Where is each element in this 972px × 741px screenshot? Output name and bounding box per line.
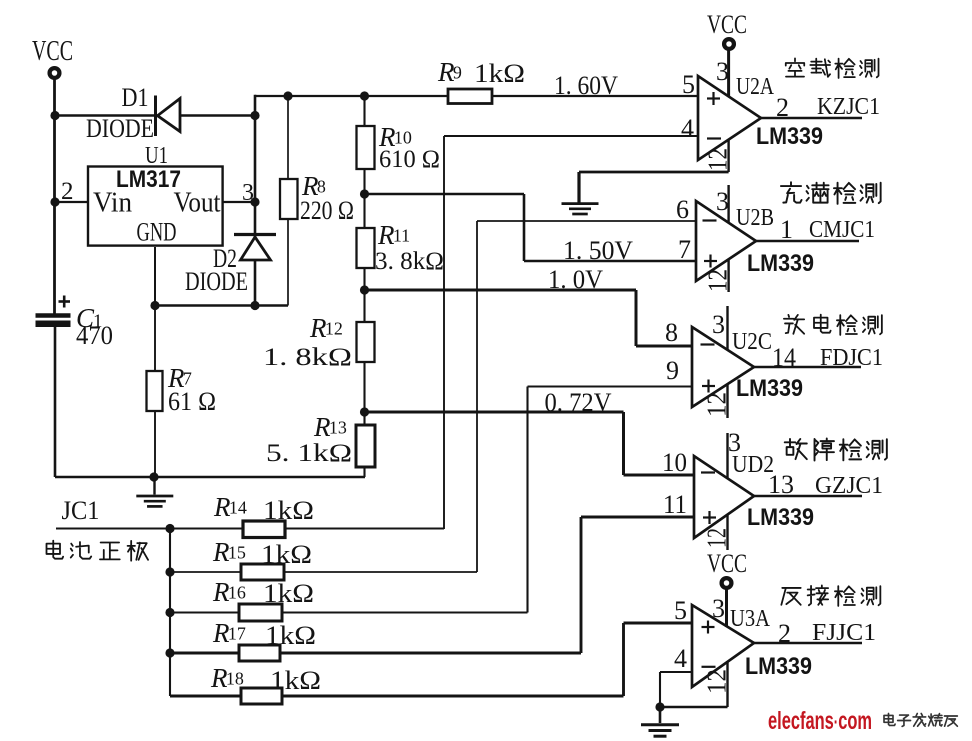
label fault detection (guzhang jiance): [785, 438, 887, 460]
wire pin9 net (R16 to U2C pin9): [528, 387, 693, 613]
svg-text:12: 12: [702, 669, 732, 694]
svg-text:18: 18: [226, 669, 244, 689]
pin 5 label U3A: [674, 596, 687, 625]
wire R16 row y=612.5: [170, 611, 528, 613]
node junction VCC/D1 rail: [50, 111, 59, 120]
minus input marker U2C: [701, 343, 715, 345]
svg-text:5: 5: [674, 596, 687, 625]
svg-text:U2A: U2A: [736, 74, 775, 100]
svg-text:1kΩ: 1kΩ: [474, 58, 525, 88]
pin 13 label UD2: [768, 470, 794, 499]
minus input marker U2A: [707, 137, 721, 139]
svg-text:61 Ω: 61 Ω: [168, 387, 216, 416]
svg-text:1kΩ: 1kΩ: [261, 540, 312, 569]
svg-text:4: 4: [681, 114, 694, 143]
svg-text:2: 2: [61, 178, 74, 205]
resistor R13 5.1kohm: [266, 412, 375, 477]
svg-text:DIODE: DIODE: [86, 114, 154, 143]
wire R17 row y=653: [170, 652, 581, 655]
pin 12 lead U2C: [702, 384, 732, 418]
pin 12 lead U2B: [703, 260, 733, 292]
resistor R17 1kohm: [212, 618, 316, 661]
wire U3A pin5 net (R18 to U3A pin5): [624, 623, 693, 696]
net label 1.60V: [554, 71, 618, 100]
wire R15 row y=572: [170, 571, 477, 573]
pin 6 label U2B: [676, 195, 689, 224]
svg-text:GND: GND: [137, 218, 177, 247]
resistor R16 1kohm: [212, 577, 314, 621]
svg-text:LM339: LM339: [756, 123, 823, 150]
ground (U3A): [641, 707, 679, 736]
op-amp U1 LM317 regulator box: [88, 143, 223, 247]
wire pin6 net (R15 to U2B pin6): [477, 221, 696, 572]
svg-text:11: 11: [393, 226, 410, 246]
net label FJJC1: [812, 620, 876, 646]
svg-text:KZJC1: KZJC1: [817, 94, 880, 120]
svg-text:elecfans·com: elecfans·com: [768, 707, 872, 735]
svg-text:10: 10: [662, 448, 687, 477]
resistor R14 1kohm: [213, 492, 314, 538]
pin 2 label U2A: [776, 93, 789, 122]
node junction VCC/Vin rail: [50, 197, 59, 206]
svg-text:9: 9: [666, 356, 679, 385]
svg-text:1kΩ: 1kΩ: [263, 496, 314, 525]
wire GND rail y=305.5: [155, 304, 288, 307]
op-amp U2B comparator LM339: [696, 201, 756, 281]
svg-text:VCC: VCC: [32, 36, 73, 67]
svg-text:10: 10: [394, 128, 412, 148]
power VCC (U3A pin 3): [707, 549, 747, 627]
node junction bus/R15: [165, 567, 174, 576]
svg-text:1: 1: [780, 215, 793, 244]
wire C1 bottom to ground rail: [54, 327, 57, 477]
svg-text:D1: D1: [122, 83, 149, 112]
power VCC (U2A pin 3): [707, 10, 747, 97]
net label 1.50V: [563, 236, 633, 265]
plus input marker U3A: [702, 621, 715, 634]
node junction R10/R11 (1.50V tap): [360, 189, 369, 198]
svg-text:U2C: U2C: [732, 329, 772, 355]
svg-text:DIODE: DIODE: [185, 267, 248, 296]
resistor R11 3.8kohm: [357, 194, 445, 290]
svg-text:JC1: JC1: [62, 496, 100, 525]
minus input marker U2B: [703, 219, 717, 221]
svg-text:LM339: LM339: [736, 375, 803, 402]
resistor R12 1.8kohm: [263, 290, 375, 412]
svg-text:14: 14: [772, 343, 796, 372]
ground (U2A): [562, 204, 599, 214]
wire bottom ground rail y=477: [55, 476, 365, 479]
pin 14 label U2C: [772, 343, 796, 372]
wire 1.0V net to pin8: [365, 290, 693, 346]
svg-text:1kΩ: 1kΩ: [265, 621, 316, 650]
op-amp U3A comparator LM339: [692, 605, 754, 687]
svg-text:0. 72V: 0. 72V: [545, 388, 612, 417]
svg-text:4: 4: [674, 644, 687, 673]
wire U3A pin4 net: [660, 672, 692, 707]
svg-text:12: 12: [702, 528, 732, 548]
pin 3 label U3A: [712, 594, 725, 623]
svg-text:7: 7: [678, 235, 691, 264]
designator U2C: [732, 329, 772, 355]
pin 10 label UD2: [662, 448, 687, 477]
wire D1 anode rail y=115.5: [55, 114, 255, 117]
net label GZJC1: [815, 473, 883, 499]
minus input marker UD2: [701, 471, 715, 473]
svg-text:13: 13: [768, 470, 794, 499]
node junction R8 top: [283, 91, 292, 100]
svg-text:GZJC1: GZJC1: [815, 473, 883, 499]
minus input marker U3A: [702, 666, 716, 668]
op-amp U2C comparator LM339: [692, 327, 754, 407]
pin 4 label U2A: [681, 114, 694, 143]
svg-text:3. 8kΩ: 3. 8kΩ: [375, 248, 444, 275]
svg-text:470: 470: [76, 321, 113, 350]
svg-text:FJJC1: FJJC1: [812, 620, 876, 646]
net label KZJC1: [817, 94, 880, 120]
capacitor C1 470: [36, 296, 114, 351]
watermark dianzi fashaoyou: [884, 713, 957, 726]
label reverse-connection detection (fanjie jiance): [781, 585, 880, 605]
svg-text:7: 7: [183, 369, 192, 389]
node junction R11/R12 (1.0V tap): [360, 285, 369, 294]
svg-text:2: 2: [778, 619, 791, 648]
net label battery-positive (dianchi zhengji): [47, 541, 149, 561]
svg-text:13: 13: [329, 418, 347, 438]
pin 12 lead U2A: [703, 140, 733, 172]
op-amp U2A comparator LM339: [698, 76, 761, 160]
svg-text:Vin: Vin: [93, 188, 132, 219]
wire R18 row y=696: [170, 695, 624, 698]
svg-text:15: 15: [228, 543, 246, 563]
wire output FJJC1: [754, 642, 862, 644]
wire pin3 Vout to node: [223, 201, 255, 203]
svg-text:12: 12: [703, 148, 733, 171]
svg-text:1. 50V: 1. 50V: [563, 236, 633, 265]
wire pin11 net (R17 to UD2 pin11): [581, 517, 694, 653]
svg-text:1. 0V: 1. 0V: [548, 265, 603, 294]
power VCC (main, top-left): [32, 36, 73, 78]
wire output FDJC1: [754, 366, 861, 368]
label no-load detection (kongzai jiance): [786, 58, 879, 78]
diode D2: [185, 235, 276, 297]
node junction D2 anode: [250, 301, 259, 310]
node junction Vout: [250, 197, 259, 206]
label discharge detection (fangdian jiance): [784, 315, 882, 335]
svg-text:17: 17: [228, 624, 246, 644]
node junction R10 top: [360, 91, 369, 100]
wire U3A pin12 to ground: [660, 706, 728, 708]
wire output CMJC1: [756, 240, 859, 242]
node JC1 battery positive input: [62, 496, 100, 525]
pin 3 lead U2B: [716, 185, 729, 223]
node junction U3A pin4/pin12 ground: [655, 702, 664, 711]
svg-text:5: 5: [682, 70, 695, 99]
plus input marker UD2: [703, 511, 716, 524]
node junction bus/R16: [165, 608, 174, 617]
wire JC1 row y=529: [56, 528, 444, 530]
svg-text:1kΩ: 1kΩ: [263, 579, 314, 608]
part label LM339 (UD2): [747, 504, 814, 531]
svg-text:6: 6: [676, 195, 689, 224]
pin 3 lead U2C: [712, 306, 728, 350]
svg-text:9: 9: [453, 63, 462, 83]
svg-text:Vout: Vout: [174, 188, 221, 219]
op-amp UD2 comparator LM339: [694, 456, 754, 538]
node junction R7 / ground: [149, 472, 158, 481]
net label 1.0V: [548, 265, 603, 294]
svg-text:1kΩ: 1kΩ: [270, 666, 321, 695]
svg-text:220 Ω: 220 Ω: [300, 196, 354, 225]
svg-text:VCC: VCC: [707, 10, 747, 39]
part label LM339 (U2A): [756, 123, 823, 150]
pin 3 lead UD2: [728, 428, 742, 479]
svg-text:LM339: LM339: [747, 504, 814, 531]
resistor R9 1kohm: [437, 57, 525, 104]
svg-text:8: 8: [665, 318, 678, 347]
svg-text:LM339: LM339: [747, 250, 814, 277]
resistor R15 1kohm: [212, 537, 312, 580]
pin 4 label U3A: [674, 644, 687, 673]
wire vertical x=255 (D1 cathode to GND rail, through D2): [254, 95, 257, 306]
pin 5 label U2A: [682, 70, 695, 99]
pin 3 label U2A: [716, 57, 729, 86]
svg-text:CMJC1: CMJC1: [809, 217, 875, 243]
svg-text:LM339: LM339: [745, 653, 812, 680]
svg-text:1. 8kΩ: 1. 8kΩ: [263, 344, 352, 371]
designator UD2: [732, 452, 774, 478]
part label LM339 (U2B): [747, 250, 814, 277]
plus input marker U2C: [702, 380, 715, 393]
diode D1: [86, 83, 180, 143]
svg-text:5. 1kΩ: 5. 1kΩ: [266, 440, 352, 467]
svg-text:3: 3: [712, 594, 725, 623]
wire top rail y=96 (to R9 and pin5): [255, 95, 698, 97]
watermark elecfans.com logo: [768, 707, 872, 735]
resistor R7 61ohm: [147, 306, 217, 478]
pin 2 label U1: [61, 178, 74, 205]
svg-text:14: 14: [229, 498, 247, 518]
plus input marker U2B: [704, 255, 717, 268]
wire output KZJC1: [761, 117, 862, 119]
svg-text:3: 3: [716, 57, 729, 86]
net label CMJC1: [809, 217, 875, 243]
pin 8 label U2C: [665, 318, 678, 347]
node junction bus/R17: [165, 648, 174, 657]
svg-text:U2B: U2B: [736, 205, 774, 231]
node junction R12/R13 (0.72V tap): [360, 407, 369, 416]
wire pin2 Vin rail: [55, 201, 88, 203]
svg-text:16: 16: [228, 583, 246, 603]
pin 7 label U2B: [678, 235, 691, 264]
pin 2 label U3A: [778, 619, 791, 648]
pin 1 label U2B: [780, 215, 793, 244]
svg-text:12: 12: [702, 392, 732, 417]
pin 12 lead U3A: [702, 661, 732, 707]
designator U2A: [736, 74, 775, 100]
wire VCC vertical rail x=55: [53, 79, 56, 315]
pin 12 lead UD2: [702, 514, 732, 550]
svg-text:12: 12: [325, 319, 343, 339]
svg-text:3: 3: [712, 310, 725, 339]
designator U2B: [736, 205, 774, 231]
part label LM339 (U2C): [736, 375, 803, 402]
svg-text:2: 2: [776, 93, 789, 122]
svg-text:3: 3: [716, 187, 729, 216]
label full-charge detection (chongman jiance): [781, 182, 881, 204]
svg-text:VCC: VCC: [707, 549, 747, 578]
wire U2A pin12 to ground: [579, 172, 729, 204]
svg-text:610 Ω: 610 Ω: [379, 146, 440, 173]
wire U1 GND pin down: [154, 247, 156, 306]
net label FDJC1: [820, 345, 883, 371]
pin 3 label U1: [242, 180, 254, 206]
wire 0.72V net to pin10: [365, 412, 695, 475]
resistor R18 1kohm: [210, 663, 321, 704]
plus input marker U2A: [707, 92, 720, 105]
resistor R8 220ohm: [280, 96, 354, 306]
svg-text:12: 12: [703, 269, 733, 292]
resistor R10 610ohm: [357, 96, 441, 194]
svg-text:1. 60V: 1. 60V: [554, 71, 618, 100]
node junction bus/R14: [165, 524, 174, 533]
node junction D1 cathode / R9 branch: [250, 111, 259, 120]
pin 11 label UD2: [663, 490, 687, 519]
wire JC1 bus vertical x=170: [169, 529, 171, 697]
node junction GND pin / R7: [150, 301, 159, 310]
wire 1.50V net to pin7: [365, 194, 697, 261]
svg-text:11: 11: [663, 490, 687, 519]
svg-text:FDJC1: FDJC1: [820, 345, 883, 371]
wire pin4 net (R14 to U2A pin4): [444, 136, 698, 529]
svg-text:8: 8: [317, 177, 326, 197]
designator U3A: [730, 606, 771, 632]
net label 0.72V: [545, 388, 612, 417]
ground (left, below R7): [136, 477, 173, 506]
wire output GZJC1: [754, 495, 862, 497]
part label LM339 (U3A): [745, 653, 812, 680]
pin 9 label U2C: [666, 356, 679, 385]
svg-text:U3A: U3A: [730, 606, 771, 632]
